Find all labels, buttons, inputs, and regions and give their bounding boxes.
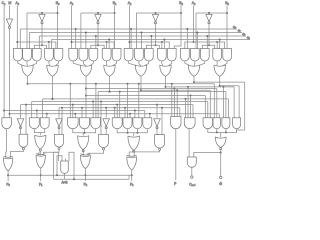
inverter B1 (NOT gate) <box>95 15 101 22</box>
wire funnel P1 <box>73 61 82 66</box>
NOR gate G1 <box>104 65 115 76</box>
AND gate Gout c <box>222 118 230 129</box>
wire bus Mbar line <box>10 113 220 115</box>
wire F1 left in <box>39 152 41 156</box>
wire B1bar <box>97 23 99 45</box>
wire S0 bus <box>20 28 237 30</box>
wire B0bar <box>41 23 43 45</box>
wire AeqB in4 <box>69 152 74 179</box>
wire bus P2 line <box>141 89 210 91</box>
wire G NOR out <box>220 149 222 176</box>
wire B0bar branch <box>34 45 46 48</box>
wire F0 out <box>7 171 9 181</box>
svg-text:B3: B3 <box>225 1 229 6</box>
wire inv0 out <box>20 127 22 134</box>
AND gate Gout b <box>213 118 221 129</box>
svg-text:B2: B2 <box>179 1 183 6</box>
AND gate stage3 a <box>112 118 122 129</box>
wire funnel P0 <box>18 61 24 66</box>
wire A3 input <box>193 6 195 43</box>
wire B1 input <box>114 6 116 49</box>
svg-text:A=B: A=B <box>61 180 67 184</box>
wire funnel Gout <box>208 129 237 133</box>
AND gate AeqB <box>61 161 69 173</box>
wire B1 copy down <box>80 13 82 49</box>
wire B3bar branch <box>202 45 214 48</box>
wire B0 horizontal <box>27 12 58 14</box>
NOR gate P0 <box>22 65 33 76</box>
wire P out <box>175 129 177 180</box>
svg-text:Cn: Cn <box>2 1 6 6</box>
AND gate slice2 g2 <box>135 49 144 62</box>
wire B2bar <box>155 23 157 45</box>
wire inv1 out <box>58 127 60 134</box>
svg-text:F0: F0 <box>6 183 10 188</box>
AND gate slice0 g1 <box>13 49 22 61</box>
AND gate slice1 g4 <box>102 49 111 62</box>
wire B3bar <box>208 23 210 45</box>
wire F2 right in <box>88 150 104 155</box>
AND gate stage1 a <box>29 118 39 129</box>
wire AeqB riser2 <box>57 156 62 176</box>
wire S stub g4 slice0 <box>50 40 52 49</box>
wire F0 left in <box>5 129 8 158</box>
wire bus P0 line <box>28 83 215 85</box>
NOR gate G2 <box>160 65 171 76</box>
wire S1 bus <box>30 32 243 34</box>
wire P0 down <box>27 76 29 84</box>
wire funnel G0 <box>48 61 51 66</box>
wire bus G3 line <box>220 85 239 87</box>
svg-text:P̄: P̄ <box>174 182 177 187</box>
wire S stub g2 slice2 <box>140 33 142 49</box>
NOR gate P1 <box>80 65 91 76</box>
svg-text:S1: S1 <box>237 28 242 33</box>
svg-text:S0: S0 <box>232 25 237 30</box>
AND gate Gout d <box>233 118 241 129</box>
wire G0 down <box>52 76 54 99</box>
NOR gate C2 <box>78 136 89 150</box>
AND gate slice3 g5 <box>223 49 232 62</box>
wire funnel C1 <box>34 129 44 133</box>
svg-text:F1: F1 <box>39 183 43 188</box>
AND gate slice0 g2 <box>23 49 32 62</box>
wire P3 down <box>193 76 195 82</box>
inverter stage1 <box>56 119 63 127</box>
wire S stub g2 slice3 <box>196 33 198 49</box>
wire B2 horizontal <box>136 12 181 14</box>
AND gate Cn4 <box>187 157 196 167</box>
wire S stub g4 slice2 <box>163 40 165 49</box>
svg-text:A0: A0 <box>15 1 19 6</box>
wire A3 branch <box>185 42 225 49</box>
wire S stub g3 slice3 <box>206 36 208 49</box>
AND gate slice1 g1 <box>69 49 78 61</box>
wire Cn4 left in <box>188 129 190 157</box>
wire AeqB in3 <box>65 159 67 162</box>
wire bus G0 line <box>43 98 229 100</box>
AND gate slice2 g5 <box>167 49 176 61</box>
svg-text:S3: S3 <box>246 35 250 40</box>
wire G3 down <box>219 76 221 86</box>
AND gate slice1 g3 <box>89 49 98 62</box>
wire A0 input <box>16 6 18 49</box>
inverter stage0 <box>17 119 24 127</box>
wire S3 bus <box>51 39 250 41</box>
wire inv2 out <box>105 127 107 134</box>
AND gate slice1 g2 <box>79 49 88 62</box>
wire bus G1 line <box>98 91 226 93</box>
AND gate stage2 a <box>67 118 78 129</box>
AND gate slice2 g1 <box>124 49 133 62</box>
XNOR gate stage2 <box>99 134 109 147</box>
AND gate stage2 c <box>91 118 101 129</box>
wire funnel G3 <box>216 61 218 66</box>
wire bus P3 line <box>194 81 245 83</box>
wire B3 copy down <box>195 13 197 49</box>
wire S stub g4 slice1 <box>108 40 110 49</box>
wire S stub g2 slice0 <box>29 33 31 49</box>
wire funnel G2 <box>162 61 163 66</box>
wire AeqB out <box>64 174 66 180</box>
wire S stub g3 slice2 <box>150 36 152 49</box>
wire A2 input <box>129 6 131 49</box>
wire S stub g4 slice3 <box>219 40 221 49</box>
wire S2 bus <box>39 35 246 37</box>
wire AeqB riser1 <box>54 152 59 179</box>
XOR gate F3 <box>127 157 137 170</box>
NOR gate C1 <box>35 135 46 149</box>
wire funnel C3 <box>117 129 147 133</box>
AND gate Gout a <box>203 118 213 129</box>
NOR gate G3 <box>214 65 225 76</box>
svg-text:Cn+4: Cn+4 <box>189 183 196 188</box>
wire B2 copy down <box>135 13 137 49</box>
wire AeqB rail2 <box>54 178 130 180</box>
inverter stage3 <box>154 119 161 127</box>
wire Cn4 right in <box>194 153 221 158</box>
AND gate P out (NAND P) <box>171 117 181 129</box>
wire S stub g1 slice0 <box>19 29 21 49</box>
wire G1 down <box>109 76 111 92</box>
terminal Cn4 <box>191 176 193 178</box>
AND gate slice1 g5 <box>112 49 121 62</box>
NOR gate P2 <box>135 65 146 76</box>
wire funnel P3 <box>185 61 191 66</box>
wire F2 left in <box>82 150 84 156</box>
svg-text:F3: F3 <box>130 183 134 188</box>
wire Mbar vertical <box>9 28 11 119</box>
AND gate slice2 g4 <box>157 49 166 62</box>
inverter B2 (NOT gate) <box>152 15 158 22</box>
wire bus aux2 line <box>21 104 194 106</box>
AND gate CnM (stage0) <box>2 118 12 129</box>
wire A0 branch to gates <box>17 42 56 49</box>
wire B0 input <box>57 6 59 49</box>
wire B3 horizontal <box>196 12 227 14</box>
AND gate slice3 g2 <box>190 49 199 62</box>
wire funnel G1 <box>106 61 108 66</box>
wire B1 horizontal <box>81 12 115 14</box>
wire bus P1 line <box>86 95 205 97</box>
inverter B3 (NOT gate) <box>206 15 212 22</box>
wire F3 right in <box>134 151 159 157</box>
wire inv3 out <box>156 127 158 134</box>
wire S stub g3 slice0 <box>38 36 40 49</box>
AND gate slice0 g3 <box>32 49 41 61</box>
AND gate slice3 g4 <box>213 49 222 62</box>
svg-text:M: M <box>8 1 11 5</box>
NOR gate C3 <box>128 136 140 150</box>
XNOR gate stage1 <box>55 134 64 147</box>
wire F3 out <box>131 170 133 181</box>
svg-text:Ḡ: Ḡ <box>219 182 222 186</box>
wire B3 input <box>226 6 228 49</box>
wire Cn vertical <box>3 6 5 120</box>
svg-text:S2: S2 <box>241 32 246 37</box>
NOR gate G0 <box>47 65 58 76</box>
wire F3 left in <box>129 150 134 157</box>
wire P2 down <box>140 76 142 90</box>
svg-text:A3: A3 <box>192 1 196 6</box>
NOR gate P3 <box>188 65 199 76</box>
inverter stage2 <box>103 119 110 127</box>
svg-text:A1: A1 <box>70 1 74 6</box>
XNOR gate stage0 <box>19 134 28 147</box>
AND gate stage3 c <box>133 118 142 129</box>
wire Cn4 out <box>191 167 193 176</box>
wire F1 out <box>40 168 42 181</box>
wire AeqB rail1 <box>8 174 132 176</box>
wire F0 right in <box>10 150 23 158</box>
AND gate stage3 b <box>123 118 132 129</box>
wire bus G2 line <box>166 86 235 88</box>
svg-text:B1: B1 <box>113 1 117 6</box>
inverter B0 (NOT gate) <box>39 15 45 22</box>
wire A2 branch to gates <box>130 42 170 49</box>
AND gate slice3 g3 <box>200 49 209 62</box>
inverter M (NOT gate) <box>6 19 12 26</box>
wire S stub g3 slice1 <box>95 36 97 49</box>
XOR gate F0 <box>3 158 12 171</box>
AND gate slice2 g3 <box>144 49 153 62</box>
AND gate slice0 g4 <box>45 49 54 62</box>
wire A1 branch to gates <box>72 42 115 49</box>
wire B0 copy down <box>26 13 28 49</box>
wire B2 input <box>174 6 181 49</box>
wire funnel P2 <box>129 61 138 66</box>
AND gate stage1 b <box>40 118 49 129</box>
wire funnel C2 <box>73 129 96 133</box>
AND gate Cn4 term <box>184 118 195 129</box>
wire S stub g1 slice1 <box>75 29 77 49</box>
wire B2bar branch <box>146 45 159 48</box>
wire S stub g1 slice3 <box>186 29 188 49</box>
wire S stub g2 slice1 <box>85 33 87 49</box>
wire bus aux1 line <box>32 101 208 103</box>
wire M input <box>9 6 11 20</box>
wire bus P1a line <box>86 88 217 90</box>
XNOR gate stage3 <box>155 135 165 148</box>
wire G2 down <box>165 76 167 87</box>
svg-text:B0: B0 <box>56 1 60 6</box>
XOR gate F1 <box>36 155 45 168</box>
wire B1bar branch <box>91 45 104 48</box>
AND gate slice0 g5 <box>54 49 63 62</box>
wire S stub g1 slice2 <box>130 29 132 49</box>
AND gate stage2 b <box>79 118 89 129</box>
wire F1 right in <box>43 150 59 156</box>
XOR gate F2 <box>80 156 90 169</box>
wire bus Cn line <box>4 110 145 112</box>
wire P1 down <box>85 76 87 118</box>
wire F2 out <box>84 169 86 182</box>
NOR gate G output <box>215 137 226 148</box>
wire A1 input <box>71 6 73 49</box>
wire bus aux3 line <box>59 107 180 109</box>
AND gate stage3 d <box>143 118 152 129</box>
AND gate slice3 g1 <box>180 49 189 62</box>
terminal G <box>220 176 222 178</box>
svg-text:F2: F2 <box>84 183 88 188</box>
svg-text:A2: A2 <box>128 1 132 6</box>
